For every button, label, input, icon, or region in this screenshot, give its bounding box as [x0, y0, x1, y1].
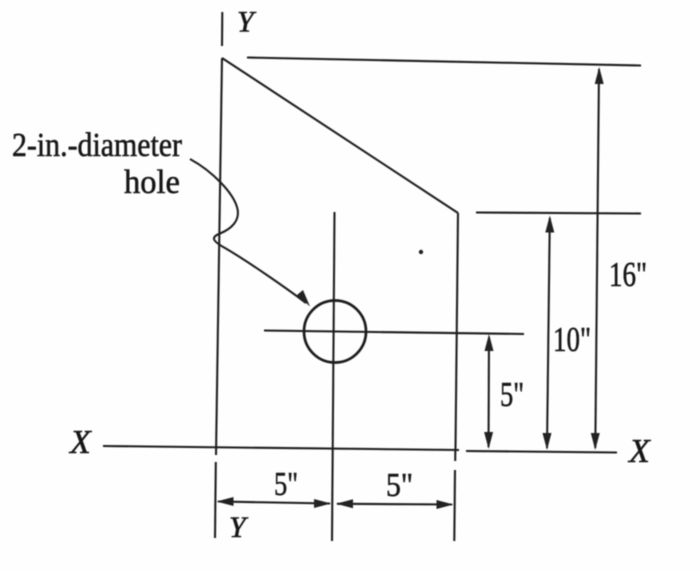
arrowhead of leader at hole: [297, 290, 310, 307]
arrowhead bottom-left 5in left: [217, 497, 234, 506]
leader line to hole: [190, 159, 306, 303]
right extension line lower part: [453, 470, 456, 541]
right extension line below axis: [454, 448, 456, 461]
hole vertical centerline: [332, 212, 335, 541]
Y axis upper segment: [221, 12, 223, 46]
ink speck: [419, 250, 423, 254]
svg-text:5": 5": [386, 467, 413, 504]
svg-text:16": 16": [609, 255, 647, 294]
arrowhead 5in vertical bottom: [484, 432, 493, 449]
arrowhead bottom-right 5in left: [336, 499, 353, 508]
svg-text:Y: Y: [237, 6, 257, 39]
X axis right segment: [466, 451, 617, 453]
svg-text:X: X: [627, 433, 651, 470]
10in dimension line: [547, 218, 550, 448]
arrowhead 5in vertical top: [485, 334, 494, 351]
svg-text:5": 5": [500, 375, 524, 414]
bottom right 5in dimension line: [337, 503, 452, 506]
X axis left/bottom edge: [103, 446, 459, 450]
svg-text:10": 10": [553, 320, 591, 359]
arrowhead bottom-right 5in right: [437, 500, 454, 509]
arrowhead 10in bottom: [543, 433, 552, 450]
10in extension line: [476, 213, 641, 214]
hole horizontal centerline: [264, 331, 524, 335]
5in vertical dimension line: [487, 337, 490, 447]
svg-text:Y: Y: [229, 511, 249, 544]
plate slanted top edge: [222, 58, 458, 213]
arrowhead bottom-left 5in right: [314, 499, 331, 508]
arrowhead 16in top: [595, 67, 604, 84]
16in dimension line: [595, 69, 599, 448]
arrowhead 10in top: [545, 216, 554, 233]
plate right edge: [456, 213, 459, 448]
svg-text:2-in.-diameter: 2-in.-diameter: [12, 127, 183, 164]
top extension line: [247, 58, 641, 66]
arrowhead 16in bottom: [591, 433, 600, 450]
hole circle: [304, 301, 366, 363]
left extension line below axis: [214, 462, 217, 538]
svg-text:X: X: [68, 424, 92, 461]
plate left edge: [216, 58, 222, 455]
svg-text:hole: hole: [124, 164, 180, 201]
bottom left 5in dimension line: [218, 502, 330, 504]
svg-text:5": 5": [274, 466, 298, 503]
